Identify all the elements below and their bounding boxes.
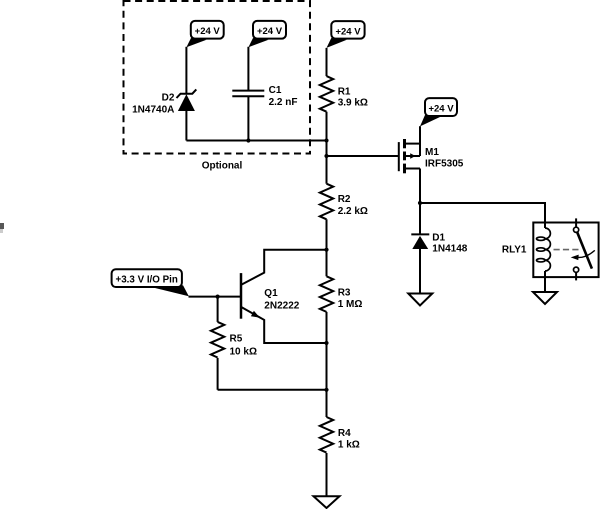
svg-text:C1: C1 — [269, 85, 282, 96]
svg-text:1 MΩ: 1 MΩ — [338, 299, 363, 310]
svg-text:Optional: Optional — [202, 161, 243, 172]
svg-text:1N4740A: 1N4740A — [132, 105, 174, 116]
svg-text:+24 V: +24 V — [335, 26, 361, 37]
svg-text:2.2 nF: 2.2 nF — [269, 97, 298, 108]
svg-text:IRF5305: IRF5305 — [425, 159, 464, 170]
svg-text:R3: R3 — [338, 287, 351, 298]
svg-text:+24 V: +24 V — [257, 26, 283, 37]
svg-text:D1: D1 — [432, 233, 445, 244]
svg-text:+3.3 V I/O Pin: +3.3 V I/O Pin — [116, 274, 178, 285]
svg-text:R4: R4 — [338, 428, 351, 439]
svg-text:3.9 kΩ: 3.9 kΩ — [338, 97, 368, 108]
svg-text:1 kΩ: 1 kΩ — [338, 440, 360, 451]
svg-text:D2: D2 — [162, 93, 175, 104]
svg-text:+24 V: +24 V — [428, 104, 454, 115]
svg-text:R5: R5 — [230, 334, 243, 345]
svg-text:M1: M1 — [425, 147, 439, 158]
svg-text:+24 V: +24 V — [195, 26, 221, 37]
svg-text:2.2 kΩ: 2.2 kΩ — [338, 206, 368, 217]
svg-text:1N4148: 1N4148 — [432, 244, 467, 255]
svg-text:Q1: Q1 — [264, 288, 278, 299]
svg-text:R2: R2 — [338, 194, 351, 205]
svg-text:2N2222: 2N2222 — [264, 301, 299, 312]
svg-text:RLY1: RLY1 — [502, 244, 527, 255]
svg-text:R1: R1 — [338, 86, 351, 97]
svg-text:10 kΩ: 10 kΩ — [230, 346, 257, 357]
